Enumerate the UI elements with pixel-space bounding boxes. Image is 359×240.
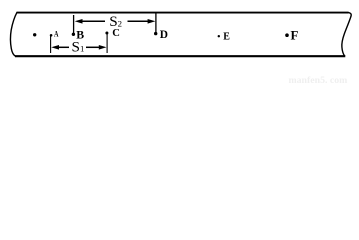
svg-text:manfen5. com: manfen5. com (289, 75, 348, 85)
dot (unlabeled first tape point) (33, 33, 36, 36)
point F dot (285, 33, 289, 37)
tape top border (17, 12, 349, 14)
point A dot (50, 34, 53, 37)
tape left torn edge (10, 12, 17, 56)
extension tick at D (down from top border to point D) (155, 13, 157, 32)
S1 dimension left line segment (59, 46, 70, 48)
S2 dimension left arrowhead (75, 19, 83, 24)
S2 dimension right arrowhead (148, 19, 156, 24)
svg-text:A: A (54, 29, 59, 38)
point B dot (72, 33, 75, 36)
S1 dimension right arrowhead (99, 45, 107, 50)
point E dot (218, 35, 220, 37)
extension tick at B (down from S2 line to point B) (73, 15, 75, 34)
svg-text:F: F (291, 28, 299, 42)
S1 dimension left arrowhead (51, 45, 59, 50)
S2 dimension right line segment (128, 20, 149, 22)
S2 dimension left line segment (82, 20, 105, 22)
point C dot (105, 32, 108, 35)
svg-text:E: E (223, 31, 230, 42)
extension tick at C (down from point C to below S1 line) (106, 33, 108, 53)
point D dot (154, 32, 157, 35)
svg-text:D: D (160, 29, 168, 41)
tape bottom border (15, 55, 345, 57)
tape right torn edge (342, 12, 351, 56)
extension tick at A (down from point A to below S1 line) (50, 36, 52, 53)
S1 dimension right line segment (86, 46, 100, 48)
